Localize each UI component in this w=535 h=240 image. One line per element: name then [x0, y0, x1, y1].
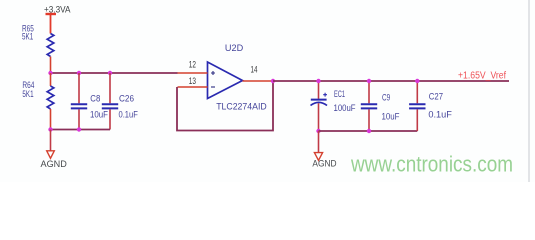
svg-text:10uF: 10uF [90, 109, 108, 119]
svg-text:5K1: 5K1 [22, 32, 33, 42]
resistor R65 [47, 34, 54, 74]
svg-text:100uF: 100uF [334, 103, 356, 113]
junction: C27 top [415, 79, 419, 83]
svg-text:0.1uF: 0.1uF [428, 110, 452, 120]
svg-text:U2D: U2D [225, 43, 244, 53]
capacitor C8 [71, 73, 87, 130]
ground AGND (left) [47, 151, 55, 159]
svg-text:C26: C26 [119, 93, 134, 103]
svg-text:10uF: 10uF [382, 111, 400, 121]
junction: EC1 top [316, 79, 320, 83]
svg-text:AGND: AGND [312, 159, 336, 170]
svg-text:AGND: AGND [41, 159, 67, 170]
junction: output node [271, 79, 275, 83]
ground AGND (right) [314, 153, 322, 161]
svg-text:0.1uF: 0.1uF [119, 109, 139, 119]
wire: top-left rail from R65 node to op-amp input [51, 72, 178, 74]
capacitor C26 [102, 73, 118, 130]
wire: drop to left AGND [50, 130, 52, 151]
resistor R64 [47, 73, 54, 130]
svg-text:EC1: EC1 [334, 89, 345, 99]
capacitor C27 [409, 81, 425, 131]
svg-text:+1.65V_Vref: +1.65V_Vref [458, 70, 506, 81]
svg-text:12: 12 [189, 60, 196, 70]
wire: output rail to +1.65V_Vref [273, 80, 509, 82]
junction: C8 bottom [77, 127, 81, 131]
junction: EC1 bottom [316, 129, 320, 133]
capacitor C9 [361, 81, 377, 131]
svg-text:www.cntronics.com: www.cntronics.com [350, 152, 513, 177]
svg-text:5K1: 5K1 [22, 89, 33, 99]
junction: R64 bottom node [48, 127, 52, 131]
junction: C26 top [108, 71, 112, 75]
wire: bottom-left rail [51, 129, 111, 131]
svg-text:TLC2274AID: TLC2274AID [216, 102, 267, 113]
svg-text:C9: C9 [382, 93, 390, 103]
pin 14 wire [243, 80, 274, 82]
wire: feedback loop from pin 13 to output node [177, 81, 273, 131]
junction: C8 top [77, 71, 81, 75]
pin 12 wire [178, 72, 208, 74]
svg-text:13: 13 [189, 76, 196, 86]
wire: drop to right AGND [318, 131, 320, 153]
svg-text:C27: C27 [429, 92, 443, 102]
svg-text:C8: C8 [90, 93, 100, 103]
junction: C9 top [367, 79, 371, 83]
power symbol +3.3VA [46, 14, 57, 34]
op-amp U2D [208, 62, 243, 99]
wire: bottom-right rail [319, 130, 418, 132]
svg-text:14: 14 [251, 64, 258, 74]
pin 13 wire [178, 86, 208, 88]
capacitor EC1 (electrolytic) [311, 81, 328, 131]
svg-text:+3.3VA: +3.3VA [44, 4, 71, 15]
junction: C9 bottom [367, 129, 371, 133]
junction: R64 top node [48, 71, 52, 75]
